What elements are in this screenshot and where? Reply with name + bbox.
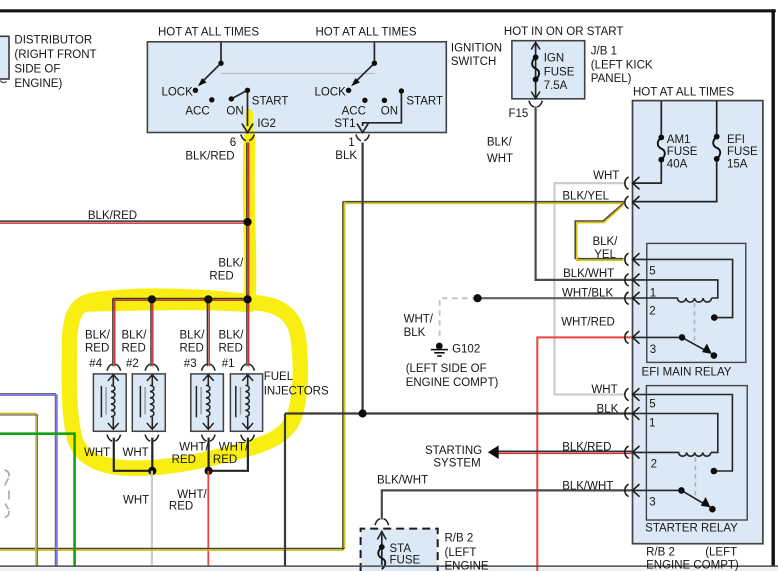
svg-text:(LEFT KICK: (LEFT KICK: [591, 59, 653, 71]
EFI main relay inner box: [647, 243, 746, 362]
distributor box fill: [0, 36, 9, 79]
starter relay blade arrowhead: [701, 497, 711, 507]
svg-text:BLK/RED: BLK/RED: [185, 150, 234, 162]
svg-text:WHT: WHT: [591, 384, 617, 396]
fuse AM1 40A: [633, 101, 721, 202]
svg-text:ON: ON: [381, 105, 398, 117]
injector box #2 border: [132, 374, 165, 431]
wire injector #3 bottom stub: [208, 438, 210, 471]
injector #2 symbol: [140, 375, 157, 430]
EFI relay blade arrowhead: [702, 344, 712, 354]
svg-text:WHT: WHT: [123, 494, 149, 506]
ignition switch left: feed wire: [203, 43, 401, 127]
svg-text:SYSTEM: SYSTEM: [433, 458, 480, 470]
node: WHT/RED junction: [205, 467, 213, 475]
wire BLK/RED feed injector #1: [246, 299, 248, 366]
ignition switch left: blade to LOCK: [203, 63, 221, 81]
svg-text:BLK: BLK: [597, 404, 619, 416]
node: bus junction at #1: [244, 295, 252, 303]
wire blue left: [0, 394, 55, 566]
svg-text:LOCK: LOCK: [314, 86, 346, 98]
ignition switch left START node dot: [245, 88, 250, 93]
ignition switch left: IG2 output line: [247, 90, 249, 126]
injector box #1 border: [230, 374, 262, 431]
EFI relay blade tip dot: [711, 352, 718, 359]
arrow to starting system: [488, 445, 499, 459]
ignition switch box border: [147, 42, 446, 133]
fuse IGN dots: [533, 54, 539, 60]
ignition switch right: ST1 output line: [363, 91, 402, 126]
ghost connector chevrons left: [5, 470, 9, 486]
wire BLK/RED main vertical IG2 to injector bus: [246, 143, 248, 300]
svg-text:1: 1: [649, 418, 655, 430]
svg-text:START: START: [252, 95, 289, 107]
connector EFI relay pin 2: [625, 292, 640, 305]
svg-text:RED: RED: [219, 343, 243, 355]
svg-text:RED: RED: [122, 343, 146, 355]
svg-text:SIDE OF: SIDE OF: [14, 64, 60, 76]
EFI relay pin2 line and coil: [633, 298, 712, 302]
EFI relay pin3 line: [633, 336, 683, 338]
borders: distributor box: [0, 36, 9, 79]
svg-text:2: 2: [651, 459, 657, 471]
ignition switch right: blade to LOCK: [356, 63, 374, 81]
ignition switch right LOCK dot: [346, 88, 351, 93]
svg-text:5: 5: [649, 266, 655, 278]
svg-text:BLK/: BLK/: [487, 137, 513, 149]
connector brackets and arrows at R/B 2 box edge: [625, 177, 640, 497]
ignition switch right START dot: [399, 88, 404, 93]
connector EFI relay pin 3: [625, 331, 640, 344]
svg-text:BLK: BLK: [335, 150, 357, 162]
STA fuse box fill: [361, 529, 438, 571]
svg-text:WHT/: WHT/: [179, 442, 209, 454]
svg-text:ENGINE: ENGINE: [445, 561, 489, 571]
STA fuse dot: [379, 544, 385, 550]
connector starter relay pin 3: [625, 484, 640, 497]
svg-text:WHT/: WHT/: [219, 442, 249, 454]
ignition switch left LOCK arrowhead: [198, 78, 207, 86]
connector BLK/YEL (EFI fuse): [625, 196, 640, 209]
wire BLK/RED horizontal from left edge: [0, 220, 248, 222]
svg-text:BLK/: BLK/: [218, 257, 244, 269]
connector cup below ST1: [356, 134, 369, 140]
svg-text:BLK/: BLK/: [180, 329, 206, 341]
svg-text:G102: G102: [452, 344, 480, 356]
svg-text:RED: RED: [169, 501, 193, 513]
connector EFI relay pin 5: [625, 253, 640, 266]
node: bus junction at #2: [148, 295, 156, 303]
svg-text:STARTER RELAY: STARTER RELAY: [645, 523, 738, 535]
wire injector #4 bottom stub: [114, 438, 153, 471]
starter relay pin5 internal line: [633, 395, 733, 472]
EFI relay pin5 internal line: [633, 259, 733, 317]
wire BLK branch vertical to bottom: [284, 414, 286, 567]
wire injector #1 bottom stub: [209, 438, 248, 471]
fuse IGN 7.5A symbol: [531, 42, 540, 98]
svg-text:FUEL: FUEL: [264, 371, 294, 383]
svg-text:BLK/: BLK/: [122, 329, 148, 341]
ignition switch link line: [221, 73, 374, 75]
ignition switch right LOCK arrowhead: [351, 78, 360, 86]
wire BLK/RED feed injector #4: [112, 299, 114, 367]
svg-text:SWITCH: SWITCH: [451, 56, 496, 68]
svg-text:HOT IN ON OR START: HOT IN ON OR START: [504, 26, 623, 38]
starter relay blade tip dot: [709, 506, 716, 513]
wire WHT from AM1 fuse to starter relay pin 5: [555, 183, 625, 394]
ignition switch right ON dot: [382, 98, 387, 103]
wire BLK/RED feed injector #2: [150, 299, 152, 366]
wire BLK from ST1: [362, 143, 364, 414]
svg-text:BLK/: BLK/: [85, 329, 111, 341]
connector starter relay pin 2: [625, 446, 640, 459]
starter relay switch blade: [681, 490, 705, 504]
distributor connector stub arc: [0, 81, 7, 83]
highlighter top band extra stroke: [86, 303, 250, 305]
svg-text:BLK/: BLK/: [219, 329, 245, 341]
svg-text:ON: ON: [226, 105, 243, 117]
svg-text:J/B 1: J/B 1: [591, 46, 617, 58]
injector #4 symbol: [101, 375, 253, 430]
svg-text:#1: #1: [222, 358, 235, 370]
connector dome above STA fuse box: [375, 519, 389, 526]
wire BLK/RED injector bus: [113, 298, 248, 300]
ignition switch right ACC dot: [362, 98, 367, 103]
EFI main relay internals: [633, 259, 733, 351]
connector WHT (AM1): [625, 177, 640, 190]
wire WHT/RED from EFI relay pin 3: [537, 337, 632, 571]
svg-text:WHT: WHT: [123, 447, 149, 459]
highlighter tail along IG2 wire: [246, 113, 254, 142]
injector box fills: [93, 374, 126, 431]
svg-text:(RIGHT FRONT: (RIGHT FRONT: [14, 49, 96, 61]
page bottom border: [0, 565, 778, 567]
svg-text:ACC: ACC: [185, 105, 209, 117]
svg-text:BLK/: BLK/: [592, 236, 618, 248]
starter relay common dot: [678, 487, 685, 494]
svg-text:15A: 15A: [727, 158, 748, 170]
svg-text:IGNITION: IGNITION: [451, 42, 502, 54]
wire BLK/WHT from starter relay pin 3 to STA fuse: [382, 490, 633, 519]
svg-text:DISTRIBUTOR: DISTRIBUTOR: [14, 35, 92, 47]
svg-text:RED: RED: [180, 343, 204, 355]
ignition switch left LOCK dot: [193, 88, 198, 93]
wire BLK/YEL jog to EFI relay pin 5: [575, 203, 623, 258]
connector EFI relay pin 1: [625, 274, 640, 287]
svg-text:RED: RED: [172, 454, 196, 466]
starter relay pin3 line: [633, 489, 682, 491]
R/B 2 big box fill: [633, 101, 763, 544]
svg-text:5: 5: [649, 399, 655, 411]
node: bus junction at #3: [204, 295, 212, 303]
svg-text:BLK/RED: BLK/RED: [562, 442, 611, 454]
node: WHT/BLK junction: [473, 294, 481, 302]
EFI relay switch blade: [682, 337, 707, 351]
svg-text:STA: STA: [390, 543, 412, 555]
fuse EFI 15A: [716, 101, 718, 137]
ground G102: [431, 343, 448, 357]
highlighter bottom band extra stroke: [98, 457, 228, 467]
connector starter relay pin 1: [625, 407, 640, 420]
node: WHT junction: [148, 467, 156, 475]
svg-text:ST1: ST1: [334, 118, 355, 130]
starter relay armature dashed link: [694, 458, 696, 501]
svg-text:IGN: IGN: [544, 53, 564, 65]
wire BLK/RED feed injector #3: [206, 299, 208, 366]
EFI relay armature dashed link: [694, 303, 696, 344]
EFI relay common dot: [679, 334, 686, 341]
svg-text:1: 1: [348, 137, 354, 149]
svg-text:LOCK: LOCK: [161, 86, 193, 98]
svg-text:(LEFT: (LEFT: [445, 547, 477, 559]
starter relay pin1 internal line: [633, 414, 718, 453]
EFI relay pin1 internal line: [633, 280, 718, 298]
wire BLK/YEL horizontal from EFI fuse: [343, 201, 624, 203]
wire BLK/YEL vertical: [342, 202, 344, 550]
svg-text:#4: #4: [89, 358, 102, 370]
node: junction BLK/RED: [244, 218, 252, 226]
svg-text:FUSE: FUSE: [667, 146, 698, 158]
connector cup below IGN fuse box F15: [529, 101, 542, 107]
wire injector #2 bottom stub: [151, 438, 153, 471]
ignition switch box fill: [147, 42, 446, 133]
connector starter relay pin 5: [625, 388, 640, 401]
svg-text:WHT: WHT: [84, 447, 110, 459]
svg-text:R/B 2: R/B 2: [445, 532, 474, 544]
fuse EFI dots: [714, 134, 720, 140]
injector box #4 border: [93, 374, 126, 431]
svg-text:BLK/WHT: BLK/WHT: [563, 268, 614, 280]
svg-text:WHT: WHT: [487, 153, 513, 165]
svg-text:AM1: AM1: [667, 134, 691, 146]
svg-text:R/B 2: R/B 2: [646, 546, 675, 558]
wire olive left (GRY/YEL): [0, 413, 36, 566]
svg-text:7.5A: 7.5A: [544, 80, 568, 92]
connector cup below IG2: [241, 101, 543, 141]
injector box #3 border: [191, 374, 224, 431]
svg-text:(LEFT: (LEFT: [705, 546, 737, 558]
svg-text:EFI MAIN RELAY: EFI MAIN RELAY: [642, 367, 732, 379]
ignition switch right pivot dot: [372, 61, 377, 66]
bottom margin strip: [0, 568, 778, 571]
svg-text:FUSE: FUSE: [544, 66, 575, 78]
wire BLK/YEL bottom horizontal to left edge: [0, 548, 345, 550]
svg-text:3: 3: [650, 344, 656, 356]
svg-text:IG2: IG2: [257, 118, 276, 130]
svg-text:ENGINE): ENGINE): [14, 78, 62, 90]
wire WHT/BLK dashed to ground: [440, 298, 478, 339]
svg-text:(LEFT SIDE OF: (LEFT SIDE OF: [406, 363, 487, 375]
svg-text:RED: RED: [85, 343, 109, 355]
starter relay internals: [633, 395, 733, 505]
svg-text:#2: #2: [126, 358, 139, 370]
page top border: [0, 9, 776, 12]
svg-text:2: 2: [649, 306, 655, 318]
svg-text:RED: RED: [209, 271, 233, 283]
svg-text:40A: 40A: [667, 158, 688, 170]
IGN fuse box border: [512, 41, 585, 99]
wire WHT/RED long vertical: [207, 471, 209, 566]
injector connector cups below boxes: [107, 435, 121, 442]
svg-text:1: 1: [650, 287, 656, 299]
wire BLK/WHT from F15 to EFI relay pin 1: [536, 107, 633, 280]
STA fuse dashed box border: [361, 529, 438, 571]
wire BLK/RED to starting system: [498, 450, 633, 452]
svg-text:START: START: [406, 95, 443, 107]
ignition switch left ACC dot: [209, 97, 214, 102]
injector connector domes above boxes: [107, 364, 389, 525]
svg-text:BLK/RED: BLK/RED: [88, 210, 137, 222]
svg-text:3: 3: [649, 497, 655, 509]
svg-text:WHT/BLK: WHT/BLK: [562, 287, 613, 299]
svg-text:FUSE: FUSE: [727, 146, 758, 158]
svg-text:F15: F15: [509, 108, 529, 120]
STA fuse symbol: [377, 531, 386, 569]
svg-text:YEL: YEL: [594, 249, 616, 261]
ignition switch right: feed wire: [373, 43, 375, 64]
wire WHT/BLK from G102 junction to EFI relay pin 2: [478, 297, 633, 299]
fuse AM1 dots: [658, 135, 664, 141]
node: BLK junction: [359, 409, 367, 417]
svg-text:RED: RED: [213, 454, 237, 466]
svg-text:6: 6: [230, 137, 236, 149]
svg-text:ENGINE COMPT): ENGINE COMPT): [646, 560, 739, 571]
svg-text:FUSE: FUSE: [390, 554, 421, 566]
svg-text:#3: #3: [184, 358, 197, 370]
svg-text:ENGINE COMPT): ENGINE COMPT): [406, 377, 499, 389]
svg-text:BLK/WHT: BLK/WHT: [377, 475, 428, 487]
ignition switch left: blade ON to START: [231, 90, 247, 99]
svg-text:WHT/: WHT/: [177, 489, 207, 501]
highlighter loop around injectors: [69, 296, 300, 468]
svg-text:BLK/YEL: BLK/YEL: [562, 190, 609, 202]
ignition switch left pivot dot: [218, 61, 223, 66]
svg-text:WHT/RED: WHT/RED: [561, 317, 615, 329]
wire BLK horizontal to starter relay pin 1: [285, 412, 633, 414]
IGN fuse box fill: [512, 41, 585, 99]
starter relay pin2 line and coil: [633, 452, 711, 456]
svg-text:HOT AT ALL TIMES: HOT AT ALL TIMES: [158, 26, 259, 38]
svg-text:INJECTORS: INJECTORS: [264, 386, 329, 398]
svg-text:BLK/WHT: BLK/WHT: [562, 481, 613, 493]
R/B 2 big box border: [633, 101, 763, 544]
wire WHT long vertical: [151, 471, 153, 566]
svg-text:STARTING: STARTING: [425, 445, 482, 457]
injector #3 symbol: [196, 375, 213, 430]
injector #1 symbol: [236, 375, 253, 430]
ignition switch left ON dot: [229, 96, 234, 101]
svg-text:HOT AT ALL TIMES: HOT AT ALL TIMES: [316, 26, 417, 38]
svg-text:WHT: WHT: [593, 170, 619, 182]
starter relay NO contact dot: [711, 468, 718, 475]
svg-text:ACC: ACC: [342, 105, 366, 117]
wire green left: [0, 434, 75, 566]
svg-text:EFI: EFI: [727, 134, 745, 146]
svg-text:BLK: BLK: [404, 327, 426, 339]
svg-text:WHT/: WHT/: [404, 313, 434, 325]
page right border: [772, 9, 775, 566]
svg-text:HOT AT ALL TIMES: HOT AT ALL TIMES: [633, 86, 734, 98]
svg-text:PANEL): PANEL): [591, 73, 632, 85]
starter relay inner box: [646, 386, 747, 520]
EFI relay NO contact dot: [711, 314, 718, 321]
